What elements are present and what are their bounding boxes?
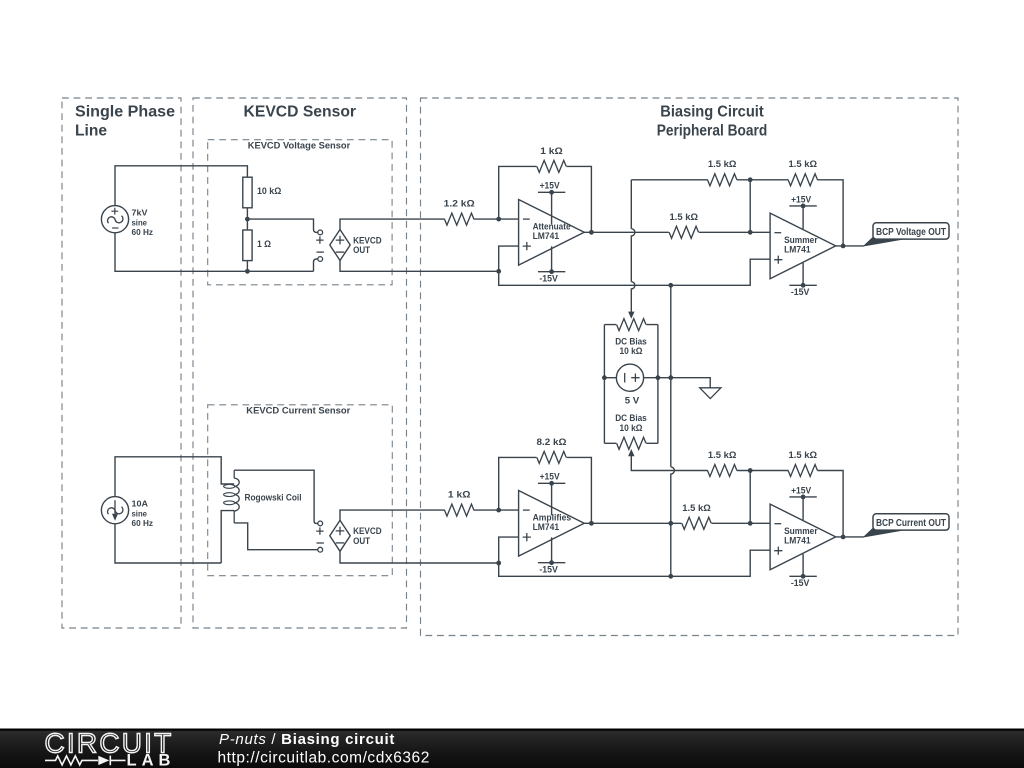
inductor L1 Rogowski Coil body (233, 470, 235, 478)
dependent source KEVCD OUT current diamond body (330, 520, 350, 551)
svg-text:KEVCD Sensor: KEVCD Sensor (244, 104, 357, 121)
resistor R1 10 kΩ body (243, 177, 252, 208)
svg-text:+15V: +15V (791, 485, 812, 495)
resistor R9 8.2 kΩ feedback (537, 451, 566, 463)
wire L1 top to sense + terminal (234, 470, 318, 523)
U2 op-amp V- supply pin and bar -15V (802, 263, 804, 285)
node summer 2 output junction (841, 535, 846, 540)
U1 op-amp inverting input - sign (523, 218, 530, 220)
block outline: KEVCD Voltage Sensor (208, 140, 392, 285)
current sense + terminal circle (318, 521, 323, 526)
potentiometer P2 DC Bias 10k (617, 437, 646, 449)
svg-text:LM741: LM741 (533, 231, 560, 241)
wire lower rail drop to summer (499, 550, 770, 576)
wire pot left bus (603, 325, 605, 444)
wire I1 bottom rail (115, 524, 221, 563)
svg-text:-15V: -15V (539, 274, 558, 284)
wire source minus lead (604, 377, 616, 379)
U2 op-amp non-inverting input + sign (774, 256, 782, 264)
CircuitLab logo resistor-diode symbol (45, 756, 98, 765)
footer bar background (0, 729, 1024, 768)
resistor R5 1.5 kΩ (669, 226, 698, 238)
KEVCD OUT current + sign (336, 527, 345, 536)
svg-text:60 Hz: 60 Hz (132, 227, 154, 237)
svg-text:1 Ω: 1 Ω (257, 239, 271, 249)
U3 op-amp non-inverting input + sign (523, 533, 531, 541)
wire ground bus vertical (671, 285, 675, 576)
block outline: Biasing Circuit Peripheral Board (421, 98, 959, 636)
KEVCD OUT + sign (336, 236, 345, 245)
block outline: Single Phase Line (62, 98, 181, 628)
U3 op-amp V- supply pin and bar -15V (551, 537, 553, 562)
resistor R10 1.5 kΩ (682, 517, 711, 529)
svg-text:10 kΩ: 10 kΩ (620, 423, 643, 433)
wire summer top bus (631, 180, 843, 246)
U2 op-amp V+ supply pin and bar +15V (802, 206, 804, 229)
current source I1 10A AC source symbol (101, 497, 128, 524)
V2 plus symbol (631, 374, 639, 382)
svg-text:1.5 kΩ: 1.5 kΩ (789, 159, 818, 169)
svg-text:10 kΩ: 10 kΩ (257, 186, 281, 196)
wire rail drop to ground bus (499, 259, 770, 285)
wire U4 output to flag (836, 536, 864, 538)
wire V1 top to divider (115, 166, 247, 206)
wire U1 output (584, 231, 669, 233)
voltage source V2 5V body (616, 364, 643, 391)
svg-text:OUT: OUT (353, 245, 370, 255)
node U1 +input rail junction (496, 269, 501, 274)
node summer 2 inverting junction (748, 521, 753, 526)
wire R2 bottom to rail (246, 261, 248, 272)
resistor R2 1 Ω body (243, 230, 252, 261)
svg-text:LAB: LAB (127, 751, 176, 768)
block outline: KEVCD Sensor (193, 98, 407, 628)
svg-text:KEVCD Current Sensor: KEVCD Current Sensor (246, 405, 350, 415)
wire pot right bus (657, 325, 659, 444)
svg-text:LM741: LM741 (533, 522, 560, 532)
U1 op-amp triangle body Attenuate (519, 200, 585, 266)
svg-text:Line: Line (75, 123, 107, 140)
svg-text:Single Phase: Single Phase (75, 104, 175, 121)
wire V1 bottom rail (115, 233, 314, 271)
wire R1 to R2 (246, 208, 248, 230)
svg-text:1.5 kΩ: 1.5 kΩ (708, 159, 737, 169)
node ground bus at source row (668, 375, 673, 380)
sense - label (317, 251, 324, 253)
svg-text:7kV: 7kV (132, 207, 148, 217)
wire R10 to summer 2 inverting input (712, 522, 771, 524)
svg-text:8.2 kΩ: 8.2 kΩ (537, 437, 567, 447)
svg-text:1.5 kΩ: 1.5 kΩ (789, 450, 818, 460)
svg-text:+15V: +15V (540, 181, 561, 191)
wire R3 to attenuator inverting input (474, 218, 519, 220)
U1 op-amp non-inverting input + sign (523, 242, 531, 250)
wire sense - terminal to rail (313, 259, 317, 271)
U4 op-amp V+ supply pin and bar +15V (802, 497, 804, 520)
wire R8 to amplifier inverting input (474, 509, 519, 511)
U4 op-amp non-inverting input + sign (774, 547, 782, 555)
wire source plus to ground (644, 378, 711, 388)
node divider mid junction (245, 217, 250, 222)
U4 op-amp triangle body Summer (770, 504, 836, 570)
svg-text:1 kΩ: 1 kΩ (540, 146, 563, 156)
output flag box BCP Current OUT (873, 514, 949, 530)
wire attenuator feedback loop (499, 166, 592, 232)
svg-text:BCP Current OUT: BCP Current OUT (876, 517, 946, 529)
ground symbol (700, 388, 721, 399)
svg-text:sine: sine (132, 508, 148, 518)
current sense + label (316, 527, 323, 534)
wire amplifier feedback loop (499, 457, 592, 523)
svg-text:10A: 10A (132, 498, 149, 508)
sense + label (316, 236, 323, 243)
svg-text:LM741: LM741 (784, 536, 811, 546)
svg-text:KEVCD: KEVCD (353, 526, 382, 536)
voltage source V1 7kV AC source symbol (101, 206, 128, 233)
resistor R6 1.5 kΩ bias summing (708, 174, 737, 186)
svg-text:-15V: -15V (539, 565, 558, 575)
wire P2 wiper to lower summer bus (631, 456, 708, 471)
resistor R7 1.5 kΩ feedback (788, 174, 817, 186)
block outline: KEVCD Current Sensor (208, 405, 393, 576)
svg-text:60 Hz: 60 Hz (132, 518, 154, 528)
U1 op-amp V+ supply pin and bar +15V (551, 192, 553, 224)
node pot left at source (602, 375, 607, 380)
node ground bus top junction (668, 283, 673, 288)
wire I1 top to coil (115, 457, 234, 497)
U4 op-amp inverting input - sign (774, 523, 781, 525)
sense - terminal circle (318, 257, 323, 262)
node U3 +input rail junction (496, 561, 501, 566)
node R2 bottom junction (245, 269, 250, 274)
resistor R3 1.2 kΩ (445, 213, 474, 225)
svg-text:-15V: -15V (791, 287, 810, 297)
U3 op-amp triangle body Amplifies (519, 491, 585, 557)
wire coil primary bottom (221, 511, 234, 563)
current sense - label (317, 542, 324, 544)
resistor R12 1.5 kΩ feedback (788, 465, 817, 477)
output flag box BCP Voltage OUT (873, 223, 949, 239)
svg-text:P-nuts / Biasing circuit: P-nuts / Biasing circuit (219, 731, 395, 748)
resistor R4 1 kΩ feedback (537, 160, 566, 172)
wire KEVCD OUT current top lead to R8 (340, 510, 445, 520)
node ground bus bottom junction (668, 574, 673, 579)
svg-text:OUT: OUT (353, 536, 370, 546)
U2 op-amp inverting input - sign (774, 232, 781, 234)
output flag wedge BCP Voltage OUT (864, 237, 902, 246)
node attenuator output junction (589, 230, 594, 235)
svg-text:1.5 kΩ: 1.5 kΩ (670, 212, 699, 222)
node amplifier feedback junction (496, 508, 501, 513)
wire L1 bottom to sense - terminal (234, 523, 318, 550)
svg-text:Rogowski Coil: Rogowski Coil (245, 492, 302, 502)
svg-text:1.5 kΩ: 1.5 kΩ (708, 450, 737, 460)
wire rail to U1 non-inverting input (499, 246, 519, 271)
svg-text:10 kΩ: 10 kΩ (620, 346, 643, 356)
svg-text:LM741: LM741 (784, 245, 811, 255)
resistor R11 1.5 kΩ bias summing (708, 465, 737, 477)
V2 minus bar symbol (624, 373, 626, 383)
node ground bus at amplifier output (668, 521, 673, 526)
svg-text:KEVCD Voltage Sensor: KEVCD Voltage Sensor (248, 140, 351, 150)
svg-text:-15V: -15V (791, 578, 810, 588)
dependent source KEVCD OUT diamond body (330, 230, 350, 261)
svg-text:DC Bias: DC Bias (615, 413, 647, 423)
KEVCD OUT current - sign (336, 542, 345, 544)
svg-text:http://circuitlab.com/cdx6362: http://circuitlab.com/cdx6362 (218, 750, 430, 767)
svg-text:1.2 kΩ: 1.2 kΩ (444, 199, 475, 209)
svg-text:BCP Voltage OUT: BCP Voltage OUT (876, 226, 946, 238)
wire summer 2 top bus (737, 471, 843, 537)
svg-text:+15V: +15V (791, 194, 812, 204)
svg-text:DC Bias: DC Bias (615, 336, 647, 346)
svg-text:Summer: Summer (784, 526, 818, 536)
sense + terminal circle (318, 230, 323, 235)
current sense - terminal circle (318, 547, 323, 552)
svg-text:1.5 kΩ: 1.5 kΩ (682, 503, 711, 513)
svg-text:5 V: 5 V (625, 396, 640, 406)
wire U3 output (584, 522, 681, 524)
U3 op-amp V+ supply pin and bar +15V (551, 483, 553, 515)
node summer inverting junction (748, 230, 753, 235)
wire KEVCD OUT bottom lead to rail (340, 261, 499, 272)
pot P1 wiper arrow (628, 312, 634, 319)
KEVCD OUT - sign (336, 251, 345, 253)
wire KEVCD OUT top lead to R3 (340, 219, 445, 229)
resistor R8 1 kΩ (445, 504, 474, 516)
wire summer 2 input riser (749, 471, 751, 524)
node attenuator feedback junction (496, 217, 501, 222)
node summer output junction (841, 244, 846, 249)
svg-text:1 kΩ: 1 kΩ (448, 490, 471, 500)
U2 op-amp triangle body Summer (770, 213, 836, 279)
svg-text:Peripheral Board: Peripheral Board (657, 123, 768, 140)
U3 op-amp inverting input - sign (523, 509, 530, 511)
U4 op-amp V- supply pin and bar -15V (802, 554, 804, 576)
U1 op-amp V- supply pin and bar -15V (551, 246, 553, 271)
pot P2 wiper arrow (628, 449, 634, 456)
node summer 2 top junction (748, 468, 753, 473)
wire R5 to summer inverting input (699, 231, 770, 233)
svg-text:sine: sine (132, 217, 148, 227)
wire rail to U3 non-inverting input (499, 537, 519, 563)
wire summer bus to potentiometer wiper (631, 180, 635, 312)
svg-text:Summer: Summer (784, 235, 818, 245)
svg-text:Biasing Circuit: Biasing Circuit (660, 104, 764, 121)
svg-text:+15V: +15V (540, 472, 561, 482)
wire divider mid to sense + terminal (247, 219, 317, 232)
wire U2 output to flag (836, 245, 864, 247)
svg-text:KEVCD: KEVCD (353, 235, 382, 245)
wire KEVCD OUT current bottom lead to rail (340, 551, 499, 563)
node summer top junction (748, 177, 753, 182)
node amplifier output junction (589, 521, 594, 526)
wire summer input riser (749, 180, 751, 233)
potentiometer P1 DC Bias 10k (617, 319, 646, 331)
output flag wedge BCP Current OUT (864, 528, 902, 537)
node pot right at source (656, 375, 661, 380)
